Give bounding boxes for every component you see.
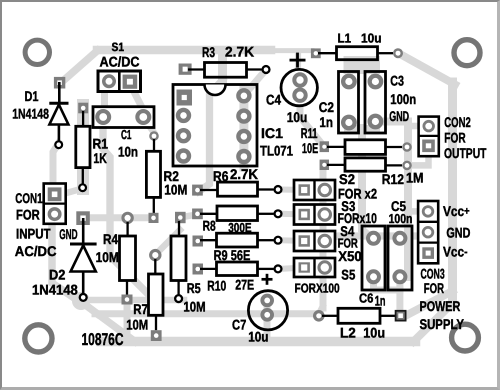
svg-text:10M: 10M [164,182,187,198]
svg-text:10876C: 10876C [82,330,124,349]
svg-text:C3: C3 [390,73,404,89]
svg-text:R3: R3 [202,44,215,60]
capacitor C3 outline [365,72,386,134]
mounting hole bottom-left [25,325,52,352]
label R4 [103,231,118,247]
svg-text:GND: GND [389,108,409,124]
resistor R7 top pad [151,250,160,259]
wire R12 left pad down behind switches [319,164,323,314]
wire C4 pads to R11 left pad [300,79,322,144]
wire R7 top pad diagonal to R5 top pad [156,230,180,254]
resistor R12 right pad [403,162,410,169]
resistor R9 right pad [275,237,282,244]
label GND near C3 [389,108,409,124]
connector CON3 pin2 pad [423,227,433,237]
connector CON2 pin2 pad [422,140,435,153]
capacitor C5 left outline [362,226,385,290]
op-amp IC1 pin8 pad [238,90,249,101]
resistor R5 body [171,236,186,281]
resistor R11 left pad [320,141,329,152]
svg-text:FOR: FOR [444,130,465,146]
wire R4 bottom pad down to bottom bus [124,299,131,341]
diode D2 cathode pad [80,294,87,301]
resistor R2 leads [153,139,155,213]
svg-text:10E: 10E [302,140,318,156]
wire R1 bottom to CON1 top pad [61,189,83,195]
svg-text:R12: R12 [382,171,404,187]
svg-text:1N4148: 1N4148 [12,106,49,122]
resistor R3 leads [188,68,262,70]
resistor R11 right pad [403,143,410,150]
label 10u for C7 [248,328,268,344]
capacitor C5 right bottom pad [394,271,405,282]
wire behind R1 [77,105,89,189]
inductor L1 right pad [394,49,402,57]
inductor L2 body [338,308,380,323]
label R8 [203,218,216,234]
wire R8 right pad to S3 [280,211,299,218]
svg-text:POWER: POWER [420,298,461,314]
label CON1 [15,190,42,206]
capacitor C1 outline [93,107,154,128]
label S4 [340,223,354,239]
label C2 [319,99,334,115]
svg-text:1N4148: 1N4148 [32,281,78,297]
svg-text:10u: 10u [248,328,268,344]
label board number 10876C [82,330,124,349]
label X50 for S4 [338,248,362,264]
svg-text:AC/DC: AC/DC [15,243,57,259]
svg-text:100n: 100n [389,211,413,226]
wire C5 bottom pads to L2 right pad [374,276,400,313]
label C5 [391,198,406,214]
wire C1 left pad down left trunk [103,118,152,298]
wire R3 right pad to IC pin8 [246,72,265,94]
switch S5 [294,258,335,277]
svg-text:TL071: TL071 [260,143,293,159]
svg-text:D2: D2 [49,266,66,282]
label INPUT for CON1 [16,226,51,242]
svg-text:FOR: FOR [424,280,444,296]
resistor R2 body [146,151,160,197]
svg-text:56E: 56E [231,247,251,263]
label 10M for R5 [183,299,205,315]
resistor R10 body [217,262,258,276]
wire R6 right pad to S2 [280,187,299,193]
op-amp IC1 pin6 pad [238,131,249,142]
capacitor C7 plus symbol [262,274,273,285]
resistor R7 body [149,274,164,315]
svg-text:IC1: IC1 [261,125,283,141]
resistor R6 right pad [275,186,282,193]
svg-text:10M: 10M [96,249,119,265]
label 2.7K for R6 [230,166,258,182]
capacitor C4 plus pad [294,74,305,85]
svg-text:Vcc-: Vcc- [443,243,468,259]
resistor R4 top pad [123,213,132,222]
connector CON3 outline [418,201,438,263]
label D1 [25,88,39,104]
wire C7 bottom pad to bottom bus [264,298,271,340]
resistor R1 body [76,126,90,167]
svg-text:FORX100: FORX100 [295,281,340,296]
label R6 [213,168,229,184]
resistor R7 bottom pad [151,330,162,341]
label 300E for R8 [228,220,252,235]
mounting hole bottom-right [452,324,479,351]
label 100n for C5 [389,211,413,226]
label R9 [214,247,228,263]
capacitor C4 plus symbol [290,53,306,68]
resistor R6 body [218,182,258,196]
label OUTPUT for CON2 [444,145,487,161]
resistor R4 body [120,236,136,281]
svg-text:C6: C6 [359,291,373,306]
svg-text:10u: 10u [363,324,385,340]
label 2.7K for R3 [225,43,254,59]
label 10u for C4 [287,109,308,125]
capacitor C4 outline [281,69,317,105]
switch S2 [294,180,335,200]
capacitor C1 right pad [137,111,149,123]
label CON2 [444,114,471,130]
label C7 [232,316,246,332]
connector CON2 outline [419,117,439,157]
label R5 [187,280,201,296]
resistor R6 left pad [192,185,203,196]
capacitor C1 left pad [97,111,109,123]
label 1N4148 for D2 [32,281,78,297]
diode D2 symbol [70,218,97,293]
capacitor C7 minus pad [262,310,272,320]
wire diagonal top bus to D1 anode pad [60,51,98,85]
svg-text:CON1: CON1 [15,190,42,206]
label 1N4148 for D1 [12,106,49,122]
label L1 [338,31,352,46]
label 10u for L1 [361,31,382,46]
resistor R12 left pad [320,160,329,170]
svg-text:27E: 27E [235,277,254,293]
switch S3 [294,205,335,225]
diode D1 anode pad [54,77,65,89]
label 1n for C6 [375,293,386,309]
resistor R11 leads [327,146,402,148]
resistor R9 body [217,233,258,247]
svg-text:GND: GND [446,225,470,241]
capacitor C7 outline [248,291,287,330]
svg-text:AC/DC: AC/DC [100,54,140,70]
resistor R10 leads [200,268,274,270]
label 10M for R2 [164,182,187,198]
inductor L1 leads [318,52,393,54]
resistor R10 left pad [193,264,204,275]
label R3 [202,44,215,60]
label 100n for C3 [390,91,416,107]
label R10 [207,277,226,293]
label R12 [382,171,404,187]
resistor R7 leads [154,259,157,330]
capacitor C2 bottom pad [343,117,355,129]
wire right bus to bottom bus [414,303,453,342]
resistor R9 left pad [193,236,204,247]
wire ground bus row1 [72,292,184,310]
wire CON2 bottom pad elbow to R12 right pad [409,149,429,165]
label L2 [340,324,356,340]
capacitor C5 left bottom pad [368,271,379,282]
wire S1 right pad to C1 right pad [131,85,144,110]
resistor R3 right pad [263,66,270,73]
svg-text:C7: C7 [232,316,246,332]
svg-text:S1: S1 [112,40,125,54]
svg-text:INPUT: INPUT [16,226,51,242]
op-amp IC1 pin5 pad [238,151,249,162]
svg-text:10n: 10n [118,143,138,159]
wire right bus to L2 right pad [406,291,453,316]
wire C1 right pad to R2 top pad [144,118,154,132]
svg-text:1K: 1K [93,150,107,166]
label C4 [266,92,281,108]
resistor R5 bottom pad [175,295,182,302]
op-amp IC1 pin3 pad [178,130,189,141]
label C6 [359,291,373,306]
capacitor C5 right outline [388,226,412,290]
resistor R5 top pad [175,212,186,223]
label FORx10 for S3 [338,210,377,226]
wire second right bus C3 GND to C5 right pads [377,122,408,278]
wire R10 right pad to S5 [280,268,299,269]
label 56E for R9 [231,247,251,263]
resistor R4 leads [126,222,129,295]
wire right vertical bus [448,82,457,305]
label GND near D2 [59,226,77,242]
svg-text:1n: 1n [375,293,386,309]
label C1 [121,127,132,142]
label C3 [390,73,404,89]
svg-text:R11: R11 [301,125,318,141]
inductor L2 right pad [396,311,406,321]
wire L1 to C2 C3 block [344,56,381,80]
wire D1 cathode to CON1 pad [53,143,59,213]
wire bottom bus [101,337,416,347]
svg-text:R7: R7 [133,301,148,317]
svg-text:L2: L2 [340,324,356,340]
label 1n for C2 [319,114,332,130]
label 10M for R4 [96,249,119,265]
wire R5 top pad to R8 left pad [180,215,197,218]
svg-text:FOR: FOR [16,207,40,223]
resistor R12 body [345,158,386,171]
resistor R3 body [205,63,247,78]
label IC1 [261,125,283,141]
svg-text:L1: L1 [338,31,352,46]
label TL071 for IC1 [260,143,293,159]
resistor R3 left pad [179,64,192,75]
mounting hole top-right [454,40,480,66]
switch S4 [294,231,335,251]
capacitor C7 plus pad [262,296,272,306]
label S5 [341,267,355,283]
label Vcc- for CON3 [443,243,468,259]
label FOR for S4 [338,235,359,250]
label CON3 [421,266,445,282]
op-amp IC1 pin1 pad [177,90,193,106]
capacitor C5 left top pad [368,233,379,244]
label Vcc+ for CON3 [443,203,470,219]
wire R9 right pad to S4 [280,237,299,244]
label FOR for CON3 [424,280,444,296]
resistor R8 right pad [275,210,282,217]
svg-text:2.7K: 2.7K [230,166,258,182]
wire C2 C3 bottom to C5 left pad [344,125,380,238]
label FOR x2 for S2 [338,185,377,201]
label R7 [133,301,148,317]
label S1 [112,40,125,54]
capacitor C2 outline [339,72,359,134]
capacitor C3 bottom pad [370,116,382,128]
resistor R1 bottom pad [79,184,86,191]
wire GND pad to R4 and R2 pads [84,214,154,221]
resistor R8 body [217,206,258,221]
diode D2 anode pad [76,211,90,225]
label S3 [341,198,355,214]
resistor R2 bottom pad [149,213,159,223]
switch S1 pin1 pad [104,76,115,87]
svg-text:C4: C4 [266,92,281,108]
svg-text:300E: 300E [228,220,252,235]
svg-text:10u: 10u [361,31,382,46]
label 10n for C1 [118,143,138,159]
capacitor C3 top pad [370,76,382,88]
switch S1 outline [98,71,141,92]
wire IC right pad column [239,89,248,167]
label GND for CON3 [446,225,470,241]
wire S1 left pad to C1 left pad [101,85,108,112]
svg-text:CON2: CON2 [444,114,471,130]
svg-text:10u: 10u [287,109,308,125]
svg-text:2.7K: 2.7K [225,43,254,59]
label R2 [164,168,180,184]
svg-text:100n: 100n [390,91,416,107]
connector CON1 pin1 pad [48,187,62,201]
label SUPPLY [420,316,465,332]
svg-text:OUTPUT: OUTPUT [444,145,487,161]
resistor R12 leads [327,164,402,167]
resistor R11 body [345,140,386,155]
op-amp IC1 outline [173,85,257,167]
resistor R1 leads [82,111,85,184]
resistor R6 leads [200,188,274,191]
svg-text:S5: S5 [341,267,355,283]
svg-text:10M: 10M [126,316,148,332]
svg-text:D1: D1 [25,88,39,104]
mounting hole top-left [25,40,49,64]
label 10E for R11 [302,140,318,156]
wire top bus through R3 into IC notch to R6 pad [199,52,223,192]
label AC/DC for CON1 [15,243,57,259]
inductor L1 body [337,47,378,60]
resistor R10 right pad [275,265,282,272]
resistor R8 left pad [192,209,203,220]
resistor R1 top pad [78,103,88,114]
svg-text:R9: R9 [214,247,228,263]
wire stub top bus down to C4 plus pad [295,52,301,74]
label FOR for CON1 [16,207,40,223]
diode D1 cathode pad [55,141,62,148]
resistor R9 leads [200,239,274,241]
wire stub to CON3 top pad [408,208,424,215]
svg-text:SUPPLY: SUPPLY [420,316,465,332]
connector CON1 pin2 pad [49,209,60,220]
resistor R8 leads [200,213,274,215]
resistor R5 leads [177,221,180,295]
resistor R2 top pad [150,132,157,139]
svg-text:R10: R10 [207,277,226,293]
capacitor C5 right top pad [394,233,405,244]
label AC/DC for S1 [100,54,140,70]
label FOR for CON2 [444,130,465,146]
svg-text:R6: R6 [213,168,229,184]
op-amp IC1 pin7 pad [238,111,249,122]
wire S4 row to CON3 middle pad [326,233,425,240]
label R1 [93,135,109,151]
svg-text:Vcc+: Vcc+ [443,203,470,219]
svg-text:R8: R8 [203,218,216,234]
resistor R4 bottom pad [122,295,133,305]
label 1M for R12 [406,170,424,186]
svg-text:GND: GND [59,226,77,242]
connector CON1 outline [44,184,66,224]
connector CON3 pin3 pad [422,247,434,259]
label POWER [420,298,461,314]
label R11 [301,125,318,141]
connector CON2 pin1 pad [424,121,434,131]
label 27E for R10 [235,277,254,293]
svg-text:C2: C2 [319,99,334,115]
svg-text:1M: 1M [406,170,424,186]
label 1K for R1 [93,150,107,166]
label S2 [339,171,355,187]
label 10M for R7 [126,316,148,332]
inductor L1 left pad [311,48,321,58]
svg-text:C1: C1 [121,127,132,142]
svg-text:10M: 10M [183,299,205,315]
wire stub to CON2 top pad [408,123,424,130]
svg-text:1n: 1n [319,114,332,130]
svg-text:R1: R1 [93,135,109,151]
svg-text:R4: R4 [103,231,118,247]
wire L1 right pad diagonal to right bus [399,54,455,85]
wire D2 pad to bottom bus diagonal [80,301,135,342]
capacitor C2 top pad [343,76,355,88]
diode D1 symbol [49,82,68,141]
connector CON3 pin1 pad [423,207,433,217]
label 10u for L2 [363,324,385,340]
inductor L2 leads [322,315,395,317]
capacitor C4 minus pad [294,90,305,101]
wire ground bus row2 [82,302,318,314]
svg-text:X50: X50 [338,248,362,264]
switch S1 pin2 pad [123,75,138,89]
label D2 [49,266,66,282]
svg-text:R5: R5 [187,280,201,296]
op-amp IC1 pin4 pad [178,151,189,162]
inductor L2 left pad [315,312,323,320]
label FORX100 for S5 [295,281,340,296]
wire CON1 vertical trunk [52,211,78,301]
wire top bus from S1 area to L1 left pad [97,46,312,55]
op-amp IC1 pin2 pad [178,110,189,121]
